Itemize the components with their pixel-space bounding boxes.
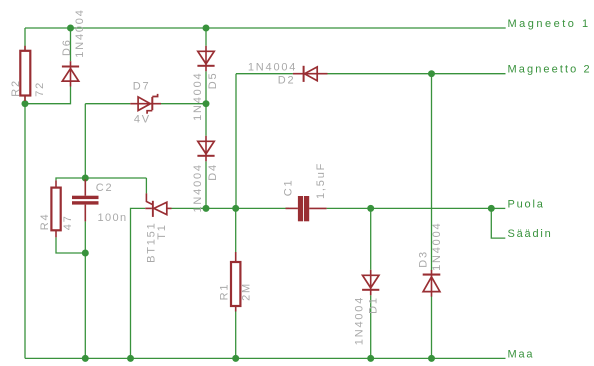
svg-text:Säädin: Säädin xyxy=(508,228,553,240)
wire D7 row right segment xyxy=(161,103,206,105)
wire T1 anode to node xyxy=(172,207,207,209)
svg-text:100n: 100n xyxy=(98,212,128,224)
junction node Maa C2 branch xyxy=(82,355,89,362)
resistor R1 xyxy=(231,252,240,312)
svg-text:4V: 4V xyxy=(134,113,151,125)
diode D6 xyxy=(62,61,79,86)
junction node D5 top xyxy=(203,25,210,32)
wire Magneeto 1 top rail xyxy=(25,27,506,29)
thyristor T1 BT151 xyxy=(145,193,171,217)
wire C2 top node rail to R4 xyxy=(56,178,146,180)
wire vertical x236 (Magneetto 2 down to Puola rail) xyxy=(235,74,237,209)
zener diode D7 xyxy=(130,94,161,114)
svg-text:1N4004: 1N4004 xyxy=(431,222,443,271)
wire Puola rail right of C1 xyxy=(327,207,492,209)
junction node Maa D1 branch xyxy=(367,355,374,362)
svg-text:C1: C1 xyxy=(283,179,295,197)
svg-text:72: 72 xyxy=(34,81,46,97)
junction node C2 top xyxy=(82,175,89,182)
diode D5 xyxy=(197,46,214,72)
wire Magneetto 2 right of D2 xyxy=(328,73,506,75)
junction node Maa D3 branch xyxy=(428,355,435,362)
svg-text:1N4004: 1N4004 xyxy=(74,8,86,57)
wire D1 top lead xyxy=(370,208,372,269)
wire vertical x86 (D7 row to C2 node) xyxy=(84,104,86,180)
wire D7 row left segment xyxy=(85,103,130,105)
svg-text:2M: 2M xyxy=(240,282,252,301)
svg-text:Magneetto 2: Magneetto 2 xyxy=(508,64,592,76)
wire R1 top lead xyxy=(235,208,237,252)
junction node Puola xyxy=(488,205,495,212)
capacitor C1 xyxy=(286,196,327,221)
svg-text:Puola: Puola xyxy=(508,198,545,210)
wire C2 bottom lead xyxy=(84,221,86,253)
wire node A horizontal (R2 bottom to D6 anode) xyxy=(25,87,71,104)
svg-text:1N4004: 1N4004 xyxy=(353,296,365,345)
svg-text:R4: R4 xyxy=(39,213,51,231)
svg-text:D6: D6 xyxy=(61,38,73,56)
junction node D6 top xyxy=(67,25,74,32)
svg-text:T1: T1 xyxy=(156,223,168,239)
junction node D5/D4/D7 xyxy=(203,100,210,107)
svg-text:47: 47 xyxy=(62,214,74,230)
svg-text:D2: D2 xyxy=(278,74,296,86)
svg-text:R1: R1 xyxy=(218,283,230,301)
wire D4 bottom lead xyxy=(205,161,207,208)
svg-text:1,5uF: 1,5uF xyxy=(315,162,327,199)
svg-text:Magneeto 1: Magneeto 1 xyxy=(508,18,591,30)
wire D1 bottom lead xyxy=(370,295,372,358)
svg-text:1N4004: 1N4004 xyxy=(192,72,204,121)
svg-text:D7: D7 xyxy=(133,81,151,93)
svg-text:Maa: Maa xyxy=(508,348,535,360)
wire vertical x431 (Magneetto 2 down through D3) xyxy=(431,74,433,271)
junction node C2 bottom xyxy=(82,250,89,257)
svg-text:D5: D5 xyxy=(207,72,219,90)
junction node R2 bottom xyxy=(22,100,29,107)
wire Puola rail left of C1 xyxy=(206,207,289,209)
wire D5 top lead xyxy=(205,28,207,46)
wire C2 bottom node to Maa rail xyxy=(84,253,86,358)
junction node T1 anode / D4 xyxy=(203,205,210,212)
wire left vertical through R2 xyxy=(24,28,26,358)
wire D5 bottom lead xyxy=(205,71,207,103)
svg-text:D3: D3 xyxy=(417,250,429,268)
junction node R1 top xyxy=(232,205,239,212)
wire T1 cathode branch to Maa xyxy=(131,208,146,358)
wire D3 bottom lead xyxy=(431,296,433,358)
wire Maa rail xyxy=(25,357,506,359)
wire R4 bottom to C2 bottom node xyxy=(56,237,85,253)
wire D6 cathode to top rail xyxy=(70,28,72,61)
svg-text:1N4004: 1N4004 xyxy=(192,163,204,212)
wire Saadin stub xyxy=(491,208,505,238)
junction node D1 top xyxy=(367,205,374,212)
resistor R4 xyxy=(51,180,60,237)
diode D2 xyxy=(293,66,328,82)
wire D4 top lead xyxy=(205,104,207,136)
wire gate drop xyxy=(145,178,147,193)
junction node Maa T1 branch xyxy=(127,355,134,362)
svg-text:R2: R2 xyxy=(10,79,22,97)
resistor R2 xyxy=(20,46,30,101)
junction node Maa R1 branch xyxy=(232,355,239,362)
capacitor C2 xyxy=(72,179,99,221)
svg-text:1N4004: 1N4004 xyxy=(248,62,297,74)
junction node Magneetto2/D3 xyxy=(428,70,435,77)
wire R1 bottom lead xyxy=(235,312,237,359)
diode D1 xyxy=(362,270,379,296)
svg-text:D1: D1 xyxy=(367,296,379,314)
svg-text:D4: D4 xyxy=(207,163,219,181)
wire Puola stub to label xyxy=(491,207,505,209)
diode D4 xyxy=(197,136,214,162)
wire Magneetto 2 rail xyxy=(236,73,293,75)
svg-text:C2: C2 xyxy=(96,182,114,194)
diode D3 xyxy=(423,270,441,297)
